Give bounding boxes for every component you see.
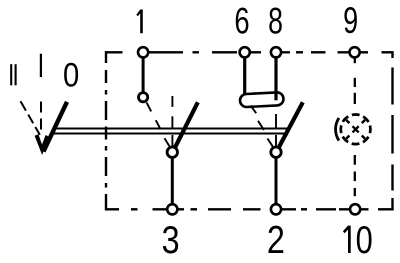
terminal 2 xyxy=(271,204,281,214)
actuator bar top line xyxy=(55,128,290,130)
enclosure border left edge (dash-dot) xyxy=(105,51,107,210)
wire terminal 6 to bridge xyxy=(243,54,246,95)
bridge contact capsule (6-8) xyxy=(240,92,284,107)
label position I xyxy=(40,54,42,77)
dashed neutral-position line contact 2 xyxy=(275,114,277,146)
movable contact lever 3 xyxy=(175,102,198,148)
dashed alternate-position line contact 3 xyxy=(147,103,171,148)
enclosure border top edge (dash-dot) xyxy=(106,51,393,53)
wire terminal 8 to bridge xyxy=(274,54,277,100)
movable contact lever 2 xyxy=(278,102,303,148)
enclosure border right edge (dashed) xyxy=(391,51,393,210)
dashed neutral-position line contact 3 xyxy=(171,96,173,146)
terminal 1 xyxy=(138,47,148,57)
terminal 9 xyxy=(350,47,360,57)
dashed wire lamp to terminal 10 xyxy=(354,155,356,196)
svg-text:0: 0 xyxy=(63,55,79,94)
label position II xyxy=(11,64,15,85)
svg-text:8: 8 xyxy=(268,0,283,41)
wire pivot 3 to terminal 3 xyxy=(171,158,174,205)
terminal 10 xyxy=(350,204,360,214)
svg-text:3: 3 xyxy=(162,218,180,262)
pivot circle contact 2 xyxy=(271,147,281,157)
svg-text:6: 6 xyxy=(234,1,249,42)
lamp illumination arc xyxy=(336,118,339,141)
svg-text:9: 9 xyxy=(343,0,358,41)
terminal 8 stem tip inside capsule xyxy=(274,92,277,100)
wire terminal 1 to fixed contact xyxy=(142,54,145,93)
wire pivot 2 to terminal 2 xyxy=(275,158,278,205)
label terminal 10 xyxy=(343,219,373,262)
terminal 3 xyxy=(167,204,177,214)
dashed position line I (vertical) xyxy=(40,102,42,130)
dashed wire terminal 9 to lamp xyxy=(354,58,356,105)
pivot circle contact 3 xyxy=(167,147,177,157)
arrowhead at lever pivot xyxy=(35,134,50,155)
svg-text:2: 2 xyxy=(267,218,285,262)
main switch lever xyxy=(44,102,68,152)
dashed position line II (diagonal) xyxy=(21,101,40,135)
svg-text:0: 0 xyxy=(356,219,373,262)
dashed alternate-position line contact 2 xyxy=(251,106,274,149)
enclosure border bottom edge (dash-dot) xyxy=(106,208,393,210)
fixed contact circle (terminal 1) xyxy=(139,93,148,102)
actuator bar bottom line xyxy=(53,133,287,135)
label terminal 1 xyxy=(136,10,143,34)
terminal 6 xyxy=(240,47,250,57)
lamp L (dashed circle with X) xyxy=(337,111,373,147)
terminal 8 xyxy=(271,47,281,57)
